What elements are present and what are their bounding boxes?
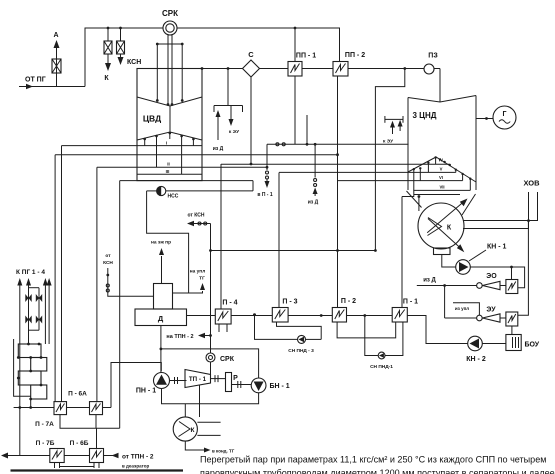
stubs П-7Б П-6Б xyxy=(54,463,56,469)
svg-text:II: II xyxy=(167,162,170,167)
node steam admission dots xyxy=(156,99,184,106)
wire extraction II down xyxy=(96,167,98,401)
svg-text:К: К xyxy=(191,427,195,434)
wire СРК to ЦВД inlet xyxy=(167,35,169,104)
node reheat branch xyxy=(403,67,406,70)
unit БОУ xyxy=(506,335,521,351)
heater П-2 xyxy=(332,308,346,323)
wire С drain xyxy=(250,77,252,164)
svg-text:КН - 1: КН - 1 xyxy=(487,244,507,251)
extraction line V xyxy=(279,171,456,173)
wire ПП-1 feed xyxy=(294,28,296,62)
svg-text:I: I xyxy=(166,140,167,145)
svg-text:в П - 1: в П - 1 xyxy=(257,192,273,198)
wire hotwell to КН-1 xyxy=(442,255,456,268)
condenser hotwell xyxy=(434,248,451,255)
main steam rail right of SRK xyxy=(177,28,340,62)
wire bypass right down to condenser xyxy=(418,197,420,212)
gearbox Р xyxy=(226,373,232,392)
svg-text:ПЗ: ПЗ xyxy=(428,53,438,60)
svg-text:ПП - 1: ПП - 1 xyxy=(296,53,316,60)
svg-text:БОУ: БОУ xyxy=(525,342,540,349)
cooler ЭО xyxy=(506,280,518,294)
heater П-7Б xyxy=(50,449,64,463)
feedwater line row 2 xyxy=(7,455,50,457)
heater П-4 xyxy=(215,309,231,324)
wire из Д to ЭО xyxy=(417,285,477,287)
svg-text:Р: Р xyxy=(233,375,238,382)
svg-text:ТГ: ТГ xyxy=(199,276,205,282)
bypass line to condenser xyxy=(55,154,337,156)
drive condenser К xyxy=(173,417,197,441)
svg-text:от ТПН - 2: от ТПН - 2 xyxy=(122,454,154,461)
main reheat line xyxy=(202,68,440,70)
extraction line III xyxy=(137,173,202,175)
svg-text:V: V xyxy=(440,167,443,172)
wire НСС line xyxy=(147,190,157,192)
svg-text:К: К xyxy=(104,75,109,82)
svg-text:К: К xyxy=(447,225,452,232)
valve СРК xyxy=(163,21,177,35)
generator Г xyxy=(493,106,516,129)
arrow от ТПН-2 xyxy=(112,453,119,458)
wire Д to ПН-1 xyxy=(160,326,162,373)
turbine 3 ЦНД top V notch xyxy=(408,96,476,103)
svg-text:Перегретый пар при параметрах: Перегретый пар при параметрах 11,1 кгс/с… xyxy=(200,455,546,465)
svg-text:П - 3: П - 3 xyxy=(282,299,297,306)
wire ХОВ to ЭУ cooler xyxy=(518,221,529,316)
cooling water arrows xyxy=(427,202,464,233)
turbine ЦВД top V notch xyxy=(137,97,202,106)
wire КН-1 discharge xyxy=(470,267,524,288)
svg-text:КСН: КСН xyxy=(127,59,141,66)
node cascade dots xyxy=(17,343,42,401)
svg-text:СРК: СРК xyxy=(162,9,178,18)
drain П-7А П-6А xyxy=(60,415,120,429)
main steam rail left xyxy=(85,28,163,87)
valve ПЗ xyxy=(424,64,434,74)
svg-text:VI: VI xyxy=(439,175,443,180)
svg-text:ЭО: ЭО xyxy=(486,273,497,280)
wire Д to БН-1 xyxy=(161,349,259,378)
leader КН-1 xyxy=(469,250,486,261)
pump КН-2 xyxy=(468,336,483,351)
valve К xyxy=(104,41,112,54)
arrow left edge xyxy=(1,453,8,459)
turbine 3 ЦНД left edge xyxy=(407,98,409,191)
wire extraction I down xyxy=(61,146,63,402)
node ЦВД outlet xyxy=(201,67,204,70)
ЦВД exhaust bottom line xyxy=(120,180,253,182)
arrow to КСН xyxy=(120,54,122,58)
wire СРК to ЦВД inlet 2 xyxy=(171,35,173,104)
wire КСН drop xyxy=(120,28,122,41)
wire VII to П-1 xyxy=(401,197,403,308)
svg-text:из Д: из Д xyxy=(423,278,436,284)
pump КН-1 xyxy=(456,260,471,275)
wire ТП-1 exhaust xyxy=(199,386,201,418)
wire cascade bottom tie xyxy=(30,399,32,408)
pump ПН-1 xyxy=(154,373,170,389)
svg-text:в деаэратор: в деаэратор xyxy=(122,464,150,469)
wire ПП-2 drain to П-2 xyxy=(337,76,339,308)
reheater ПП-2 xyxy=(333,62,348,77)
svg-text:ПП - 2: ПП - 2 xyxy=(345,52,365,59)
wire to ЭО cooler xyxy=(511,267,513,280)
pump СН ПНД-1 xyxy=(378,352,385,359)
steam admission header xyxy=(157,43,182,45)
valve А xyxy=(52,59,61,73)
svg-text:П - 1: П - 1 xyxy=(403,299,418,306)
heater П-3 xyxy=(272,308,288,323)
svg-text:П - 7А: П - 7А xyxy=(35,421,54,428)
wire to конд ТГ xyxy=(185,441,205,450)
svg-text:из Д: из Д xyxy=(213,146,224,152)
turbine 3 ЦНД right edge xyxy=(475,96,477,191)
wire К drop xyxy=(107,28,109,41)
wire ЭУ suction xyxy=(445,317,477,319)
svg-text:П - 4: П - 4 xyxy=(222,300,237,307)
gland header к ЭУ xyxy=(385,116,403,134)
coupling ТП-1 Р xyxy=(211,378,226,380)
svg-text:VII: VII xyxy=(439,185,444,190)
arrow to К xyxy=(107,54,109,64)
stubs П-4 drains xyxy=(218,324,220,332)
svg-text:ЦВД: ЦВД xyxy=(143,114,161,124)
valve КСН xyxy=(117,41,125,54)
heater П-6Б xyxy=(90,449,104,463)
extraction line VI xyxy=(338,180,463,182)
wire из упл xyxy=(453,303,479,315)
drain cascade box A xyxy=(18,344,41,358)
wire side steam feed left xyxy=(156,44,158,100)
heater П-7А xyxy=(54,402,67,415)
wire V to П-3 xyxy=(278,173,280,308)
condenser coil xyxy=(428,218,442,236)
svg-text:НСС: НСС xyxy=(168,194,179,200)
svg-text:на упл: на упл xyxy=(190,270,206,275)
svg-text:3 ЦНД: 3 ЦНД xyxy=(413,111,437,120)
wire side steam feed right xyxy=(181,44,183,100)
svg-text:Д: Д xyxy=(158,314,164,323)
svg-text:ТП - 1: ТП - 1 xyxy=(189,376,207,383)
svg-text:ХОВ: ХОВ xyxy=(523,178,540,187)
wire КН-2 to П-1 xyxy=(407,316,467,344)
wire ПЗ to ЦНД xyxy=(439,69,441,103)
wire от КСН to ТПН line xyxy=(188,223,211,225)
wire rail to drive condenser xyxy=(184,404,186,417)
feedwater line row 1 xyxy=(14,407,54,409)
wire в П-1 drop xyxy=(266,144,268,170)
svg-text:П - 6А: П - 6А xyxy=(68,391,87,398)
valve line ПП-1 drain xyxy=(267,143,409,145)
svg-text:П - 6Б: П - 6Б xyxy=(70,440,89,447)
extraction stage ticks ЦВД xyxy=(143,106,194,174)
svg-text:паровпускным трубопроводам диа: паровпускным трубопроводам диаметром 120… xyxy=(200,468,555,474)
ejector ЭО xyxy=(477,283,483,289)
wire branch to А xyxy=(56,59,58,87)
extraction line VII xyxy=(402,190,470,196)
turbine drive ТП-1 xyxy=(185,370,211,388)
svg-text:К ПГ 1 - 4: К ПГ 1 - 4 xyxy=(16,269,45,276)
svg-text:ПН - 1: ПН - 1 xyxy=(136,388,156,395)
wire ХОВ 1 xyxy=(464,192,538,221)
wire cascade left leg xyxy=(14,339,31,396)
drain U П-7Б П-6Б xyxy=(60,463,95,467)
table border bottom xyxy=(11,469,184,471)
drain П-3 loop xyxy=(277,322,322,339)
valve pair row 1 xyxy=(25,294,31,302)
wire IV to П-4 xyxy=(220,164,222,309)
wire ПП-1 drain xyxy=(294,76,296,144)
svg-text:к ЭУ: к ЭУ xyxy=(229,129,240,135)
wire exhaust left down xyxy=(119,181,121,429)
node rail junctions xyxy=(107,27,184,46)
svg-text:КН - 2: КН - 2 xyxy=(466,356,486,363)
deaerator column xyxy=(154,284,173,310)
svg-text:КСН: КСН xyxy=(103,260,113,266)
svg-text:П - 2: П - 2 xyxy=(341,298,356,305)
extraction line IV xyxy=(221,163,450,165)
generator link xyxy=(476,118,493,120)
wire БОУ to КН-2 xyxy=(482,343,506,345)
svg-text:ЭУ: ЭУ xyxy=(486,307,496,314)
svg-text:С: С xyxy=(248,50,254,59)
svg-text:П - 7Б: П - 7Б xyxy=(36,440,55,447)
feed lines to steam generators xyxy=(17,278,51,456)
svg-text:БН - 1: БН - 1 xyxy=(270,383,290,390)
svg-text:А: А xyxy=(53,32,58,39)
svg-text:СН ПНД-1: СН ПНД-1 xyxy=(370,364,393,370)
wire ЭО to ЭУ suction xyxy=(444,286,446,319)
condenser К xyxy=(418,203,464,249)
cooler ЭУ xyxy=(506,312,518,326)
wire from ОТ ПГ xyxy=(19,86,85,88)
svg-text:из упл: из упл xyxy=(455,306,469,311)
wire pumps to drive condenser rail xyxy=(162,389,259,404)
heater П-1 xyxy=(392,308,407,323)
turbine ЦВД extraction belt xyxy=(137,132,202,140)
extraction line I xyxy=(62,145,203,147)
arrow flow from ПГ xyxy=(26,84,33,90)
svg-text:от КСН: от КСН xyxy=(188,213,205,219)
coupling ПН-1 ТП-1 xyxy=(170,380,187,382)
drain cascade box C xyxy=(18,371,41,385)
heater П-6А xyxy=(90,402,103,415)
drain cascade box B xyxy=(31,358,47,372)
wire из Д riser xyxy=(314,144,316,177)
drain П-2 to П-1 cascade xyxy=(337,322,396,338)
extraction ticks ЦНД xyxy=(413,156,472,190)
cooling stubs xyxy=(197,421,220,423)
svg-text:на ТПН - 2: на ТПН - 2 xyxy=(166,334,193,340)
valve СРК ТП xyxy=(206,353,215,362)
svg-text:Г: Г xyxy=(503,111,507,118)
coupling Р to БН-1 xyxy=(232,384,252,386)
wire от КСН left drop xyxy=(108,268,154,296)
separator С xyxy=(243,60,260,77)
valve pair row 2 xyxy=(25,316,31,324)
pump СН ПНД-3 xyxy=(298,335,306,343)
svg-text:ОТ ПГ: ОТ ПГ xyxy=(25,77,46,84)
svg-text:IV: IV xyxy=(439,157,443,162)
wire ПН-1 discharge to П-6А xyxy=(111,363,161,408)
wire ХОВ 2 xyxy=(463,192,529,229)
svg-text:СН ПНД - 3: СН ПНД - 3 xyxy=(288,348,314,354)
reheater ПП-1 xyxy=(288,62,302,77)
steam line to ТП-1 xyxy=(210,224,212,354)
ejector ЭУ xyxy=(477,315,483,321)
wire branch to ТПН steam header xyxy=(375,69,404,251)
svg-text:из Д: из Д xyxy=(308,200,319,206)
svg-text:в конд. ТГ: в конд. ТГ xyxy=(212,448,235,453)
arrow to А xyxy=(54,40,60,48)
pump БН-1 xyxy=(251,378,266,393)
turbine ЦНД extraction belt xyxy=(408,157,476,182)
drain cascade box D xyxy=(31,385,47,399)
svg-text:III: III xyxy=(166,169,170,174)
deaerator tank Д xyxy=(135,309,187,326)
drain П-1 pump loop xyxy=(365,316,378,356)
svg-text:к ЭУ: к ЭУ xyxy=(383,139,394,145)
main condensate line xyxy=(187,314,393,317)
wire ЭУ to БОУ xyxy=(511,326,513,335)
turbine ЦВД body xyxy=(137,69,202,181)
valve НСС xyxy=(157,186,166,195)
svg-text:от: от xyxy=(105,254,111,259)
extraction line II xyxy=(97,166,267,168)
wire на ТПН-2 branch xyxy=(204,335,211,337)
gland header ЦВД xyxy=(214,67,243,140)
wire gland steam ТГ xyxy=(173,291,203,293)
steam line to ТПН xyxy=(211,250,376,252)
exhaust funnel to condenser xyxy=(407,191,422,208)
svg-text:СРК: СРК xyxy=(220,356,235,363)
svg-text:на эж пр: на эж пр xyxy=(151,241,171,246)
wire bypass left down xyxy=(54,155,56,402)
wire на эж пр xyxy=(161,256,163,284)
